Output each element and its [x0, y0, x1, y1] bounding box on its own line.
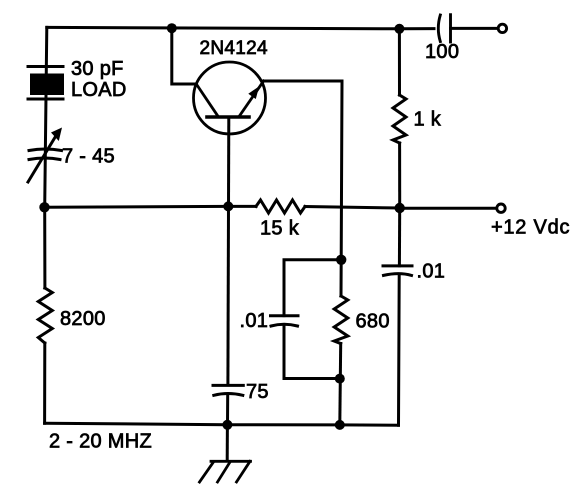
svg-text:15 k: 15 k	[260, 218, 300, 240]
resistor 1 k	[393, 95, 406, 143]
svg-text:2N4124: 2N4124	[200, 38, 268, 59]
svg-text:2 - 20 MHZ: 2 - 20 MHZ	[49, 431, 152, 453]
wire mid rail (to +12 terminal)	[400, 207, 495, 210]
capacitor 75	[213, 385, 243, 395]
node junction top rail / 1k branch	[394, 24, 404, 34]
svg-text:75: 75	[246, 381, 269, 403]
wire top rail (left segment)	[47, 27, 434, 28]
variable capacitor 7-45	[28, 128, 62, 183]
node junction 680 / .01 return	[335, 374, 345, 384]
capacitor 100 (output coupling)	[438, 15, 440, 42]
wire emitter node to 680	[340, 260, 343, 296]
wire emitter run (transistor to emitter node)	[264, 81, 342, 260]
node junction mid rail / 1k / .01	[395, 203, 405, 213]
svg-text:LOAD: LOAD	[71, 79, 127, 101]
node junction bottom rail / ground	[222, 420, 232, 430]
node junction bottom rail / 680	[335, 420, 345, 430]
wire 1k branch (top)	[398, 29, 401, 95]
crystal 30 pF LOAD	[28, 67, 64, 100]
wire top rail (right segment to output)	[451, 27, 497, 30]
resistor 15 k	[256, 200, 305, 213]
wire base drop from top rail	[172, 28, 197, 84]
wire 1k branch (bottom)	[398, 143, 401, 208]
svg-text:100: 100	[425, 41, 459, 63]
svg-text:+12 Vdc: +12 Vdc	[491, 217, 570, 239]
svg-text:680: 680	[356, 311, 390, 333]
node junction mid rail / left vertical	[39, 202, 49, 212]
wire 680 to bottom rail	[338, 344, 342, 425]
wire .01 output bypass branch (top)	[398, 208, 401, 266]
node emitter junction	[336, 255, 346, 265]
wire .01 bypass to bottom rail	[397, 275, 401, 425]
node junction top rail / base drop	[167, 23, 177, 33]
wire .01 branch (bottom)	[284, 326, 340, 379]
wire left vertical (8200 to bottom rail)	[43, 343, 46, 423]
wire base vertical (transistor to 75 cap)	[226, 117, 230, 385]
svg-text:.01: .01	[240, 310, 269, 332]
terminal output (open circle)	[498, 24, 506, 32]
ground	[200, 425, 251, 482]
terminal +12 Vdc (open circle)	[497, 204, 505, 212]
resistor 680	[334, 296, 348, 344]
wire mid rail (left segment)	[45, 205, 257, 209]
wire left vertical (top to 8200)	[45, 27, 47, 288]
wire bottom rail	[45, 423, 399, 425]
capacitor .01 (emitter bypass)	[271, 316, 299, 326]
capacitor .01 (supply bypass)	[383, 266, 412, 276]
resistor 8200	[38, 288, 52, 343]
wire 75 cap to bottom rail	[226, 395, 229, 425]
svg-text:30 pF: 30 pF	[71, 58, 124, 80]
wire mid rail (15k to 1k junction)	[305, 207, 400, 209]
svg-text:7 - 45: 7 - 45	[62, 146, 115, 168]
svg-text:8200: 8200	[60, 308, 106, 330]
svg-text:1 k: 1 k	[414, 109, 442, 131]
node junction mid rail / base line	[223, 201, 233, 211]
wire .01 branch (top)	[284, 260, 341, 316]
transistor Q1 2N4124	[194, 62, 266, 134]
svg-text:.01: .01	[417, 261, 446, 283]
